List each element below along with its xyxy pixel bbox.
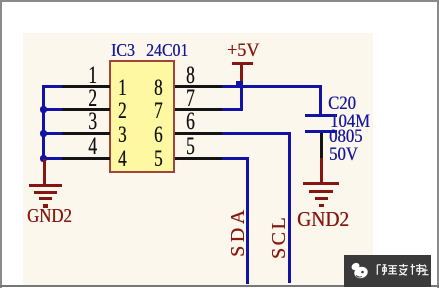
pin 6 number outside [186, 109, 195, 134]
IC IC3 24C01 body [109, 60, 175, 173]
pin 4 stub [62, 157, 110, 160]
wire left bus vertical [42, 85, 45, 160]
IC designator IC3 [111, 41, 135, 59]
ground GND2 left bar1 [29, 184, 62, 187]
capacitor C20 top plate [305, 114, 337, 118]
junction row2 [40, 106, 47, 113]
pin 7 number inside [154, 99, 163, 122]
wire SCL vertical [288, 132, 291, 284]
power +5V bar [232, 62, 253, 65]
pin 5 number outside [186, 134, 195, 159]
net label SCL [269, 213, 289, 261]
wire row1 right to cap [222, 85, 322, 88]
pin 8 number outside [186, 63, 195, 88]
wire row3 left [42, 132, 62, 135]
pin 8 number inside [154, 76, 163, 99]
ground GND2 right label [297, 209, 349, 230]
pin 7 stub [175, 108, 222, 111]
ground GND2 left bar4 [43, 204, 48, 208]
pin 2 number outside [83, 86, 97, 111]
ground GND2 right bar3 [315, 197, 328, 200]
wire row2 left [42, 108, 62, 111]
capacitor C20 bottom plate [305, 130, 337, 134]
pin 1 number outside [83, 63, 97, 88]
junction row3 [40, 130, 47, 137]
junction +5V on row1 [236, 81, 243, 88]
schematic sheet background [23, 33, 373, 285]
power +5V stem [240, 64, 243, 85]
power +5V label [227, 41, 259, 60]
pin 3 number inside [118, 123, 127, 146]
wire row1 left [42, 85, 62, 88]
IC value 24C01 [146, 41, 188, 59]
ground GND2 right bar1 [303, 182, 339, 185]
wire row4 right (SDA) [222, 157, 249, 160]
pin 5 stub [175, 157, 222, 160]
pin 4 number inside [118, 147, 127, 170]
wire cap drop vertical [319, 85, 322, 114]
pin 3 number outside [83, 109, 97, 134]
pin 6 number inside [154, 123, 163, 146]
pin 8 stub [175, 85, 222, 88]
capacitor label 0805 [329, 127, 362, 146]
capacitor label 50V [329, 145, 358, 164]
wire +5V junction down to pin7 [240, 85, 243, 111]
pin 6 stub [175, 132, 222, 135]
ground GND2 right bar2 [309, 190, 333, 193]
pin 2 number inside [118, 99, 127, 122]
wire row2 right [222, 108, 243, 111]
pin 2 stub [62, 108, 110, 111]
pin 7 number outside [186, 86, 195, 111]
ground GND2 left bar2 [34, 191, 57, 194]
junction row4 [40, 155, 47, 162]
pin 4 number outside [83, 134, 97, 159]
pin 1 stub [62, 85, 110, 88]
wire row3 right (SCL) [222, 132, 291, 135]
pin 5 number inside [154, 147, 163, 170]
net label SDA [228, 209, 248, 257]
wire row4 left [42, 157, 62, 160]
pin 1 number inside [118, 76, 127, 99]
watermark text [375, 263, 430, 277]
ground GND2 left stem [43, 159, 46, 184]
capacitor label 104M [330, 112, 370, 131]
watermark logo [348, 259, 372, 283]
wire SDA vertical [246, 157, 249, 284]
ground GND2 right bar4 [319, 204, 324, 208]
ground GND2 left bar3 [39, 197, 52, 200]
capacitor C20 bottom pin [320, 133, 323, 158]
capacitor label C20 [328, 94, 356, 113]
ground GND2 left label [27, 206, 72, 226]
pin 3 stub [62, 132, 110, 135]
ground GND2 right stem [320, 158, 323, 182]
watermark box [344, 255, 431, 287]
